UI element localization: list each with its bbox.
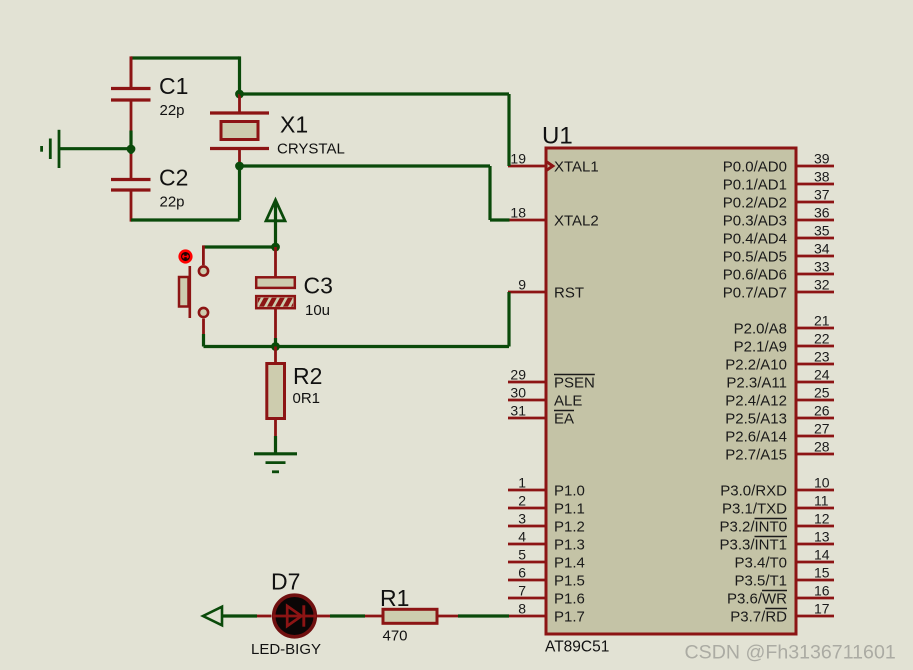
svg-text:P3.5/T1: P3.5/T1 (734, 572, 787, 589)
svg-text:9: 9 (518, 277, 526, 293)
svg-text:P0.5/AD5: P0.5/AD5 (723, 248, 787, 265)
svg-text:P1.3: P1.3 (554, 536, 585, 553)
svg-text:P0.1/AD1: P0.1/AD1 (723, 176, 787, 193)
svg-text:P3.1/TXD: P3.1/TXD (722, 500, 787, 517)
svg-text:32: 32 (814, 277, 830, 293)
svg-text:P2.7/A15: P2.7/A15 (725, 446, 787, 463)
svg-text:X1: X1 (280, 112, 308, 138)
svg-text:30: 30 (510, 385, 526, 401)
svg-text:38: 38 (814, 169, 830, 185)
svg-text:13: 13 (814, 529, 830, 545)
svg-text:P2.5/A13: P2.5/A13 (725, 410, 787, 427)
svg-text:22: 22 (814, 331, 830, 347)
svg-text:22p: 22p (160, 102, 185, 119)
svg-text:P2.4/A12: P2.4/A12 (725, 392, 787, 409)
svg-text:36: 36 (814, 205, 830, 221)
svg-text:PSEN: PSEN (554, 374, 595, 391)
svg-text:RST: RST (554, 284, 584, 301)
svg-text:P3.4/T0: P3.4/T0 (734, 554, 787, 571)
svg-text:24: 24 (814, 367, 830, 383)
svg-text:P2.3/A11: P2.3/A11 (726, 374, 787, 391)
svg-text:P0.2/AD2: P0.2/AD2 (723, 194, 787, 211)
svg-text:C2: C2 (159, 165, 188, 191)
svg-text:6: 6 (518, 565, 526, 581)
svg-text:10: 10 (814, 475, 830, 491)
svg-text:26: 26 (814, 403, 830, 419)
svg-text:22p: 22p (160, 193, 185, 210)
svg-text:P0.0/AD0: P0.0/AD0 (723, 158, 787, 175)
svg-text:P1.4: P1.4 (554, 554, 585, 571)
svg-text:U1: U1 (542, 123, 573, 150)
svg-text:5: 5 (518, 547, 526, 563)
svg-text:P0.6/AD6: P0.6/AD6 (723, 266, 787, 283)
svg-text:P0.4/AD4: P0.4/AD4 (723, 230, 787, 247)
svg-text:17: 17 (814, 601, 830, 617)
svg-text:P3.7/RD: P3.7/RD (730, 608, 787, 625)
svg-text:11: 11 (814, 493, 829, 509)
svg-text:470: 470 (383, 628, 408, 645)
svg-text:P3.0/RXD: P3.0/RXD (720, 482, 787, 499)
svg-text:39: 39 (814, 151, 830, 167)
svg-text:10u: 10u (305, 302, 330, 319)
svg-text:R1: R1 (380, 585, 409, 611)
svg-text:P3.3/INT1: P3.3/INT1 (719, 536, 787, 553)
svg-text:35: 35 (814, 223, 830, 239)
svg-text:7: 7 (518, 583, 526, 599)
svg-text:R2: R2 (293, 363, 322, 389)
svg-text:P2.6/A14: P2.6/A14 (725, 428, 787, 445)
svg-text:8: 8 (518, 601, 526, 617)
svg-text:P2.1/A9: P2.1/A9 (734, 338, 787, 355)
svg-text:P1.7: P1.7 (554, 608, 585, 625)
svg-text:2: 2 (518, 493, 526, 509)
svg-text:33: 33 (814, 259, 830, 275)
svg-text:P3.6/WR: P3.6/WR (727, 590, 787, 607)
svg-text:15: 15 (814, 565, 830, 581)
svg-text:P0.7/AD7: P0.7/AD7 (723, 284, 787, 301)
svg-text:1: 1 (518, 475, 526, 491)
svg-text:28: 28 (814, 439, 830, 455)
svg-text:C1: C1 (159, 73, 188, 99)
svg-text:P1.5: P1.5 (554, 572, 585, 589)
svg-text:D7: D7 (271, 569, 300, 595)
svg-text:P1.0: P1.0 (554, 482, 585, 499)
svg-text:ALE: ALE (554, 392, 582, 409)
svg-text:XTAL1: XTAL1 (554, 158, 599, 175)
svg-text:XTAL2: XTAL2 (554, 212, 599, 229)
svg-text:34: 34 (814, 241, 830, 257)
svg-text:27: 27 (814, 421, 830, 437)
svg-text:AT89C51: AT89C51 (545, 638, 609, 655)
svg-text:P3.2/INT0: P3.2/INT0 (719, 518, 787, 535)
svg-text:P2.0/A8: P2.0/A8 (734, 320, 787, 337)
svg-text:4: 4 (518, 529, 526, 545)
svg-text:25: 25 (814, 385, 830, 401)
svg-text:19: 19 (510, 151, 526, 167)
svg-text:23: 23 (814, 349, 830, 365)
svg-text:14: 14 (814, 547, 830, 563)
svg-text:0R1: 0R1 (293, 390, 321, 407)
svg-text:LED-BIGY: LED-BIGY (251, 641, 321, 658)
svg-text:31: 31 (510, 403, 526, 419)
svg-text:P2.2/A10: P2.2/A10 (725, 356, 787, 373)
svg-text:CRYSTAL: CRYSTAL (277, 141, 345, 158)
svg-text:3: 3 (518, 511, 526, 527)
svg-text:P1.1: P1.1 (554, 500, 585, 517)
svg-text:P0.3/AD3: P0.3/AD3 (723, 212, 787, 229)
svg-text:P1.6: P1.6 (554, 590, 585, 607)
svg-text:CSDN @Fh3136711601: CSDN @Fh3136711601 (685, 641, 896, 663)
svg-text:EA: EA (554, 410, 574, 427)
svg-text:18: 18 (510, 205, 526, 221)
svg-text:P1.2: P1.2 (554, 518, 585, 535)
svg-text:21: 21 (814, 313, 830, 329)
svg-text:C3: C3 (304, 273, 333, 299)
svg-text:37: 37 (814, 187, 830, 203)
svg-text:16: 16 (814, 583, 830, 599)
svg-text:12: 12 (814, 511, 830, 527)
svg-text:29: 29 (510, 367, 526, 383)
